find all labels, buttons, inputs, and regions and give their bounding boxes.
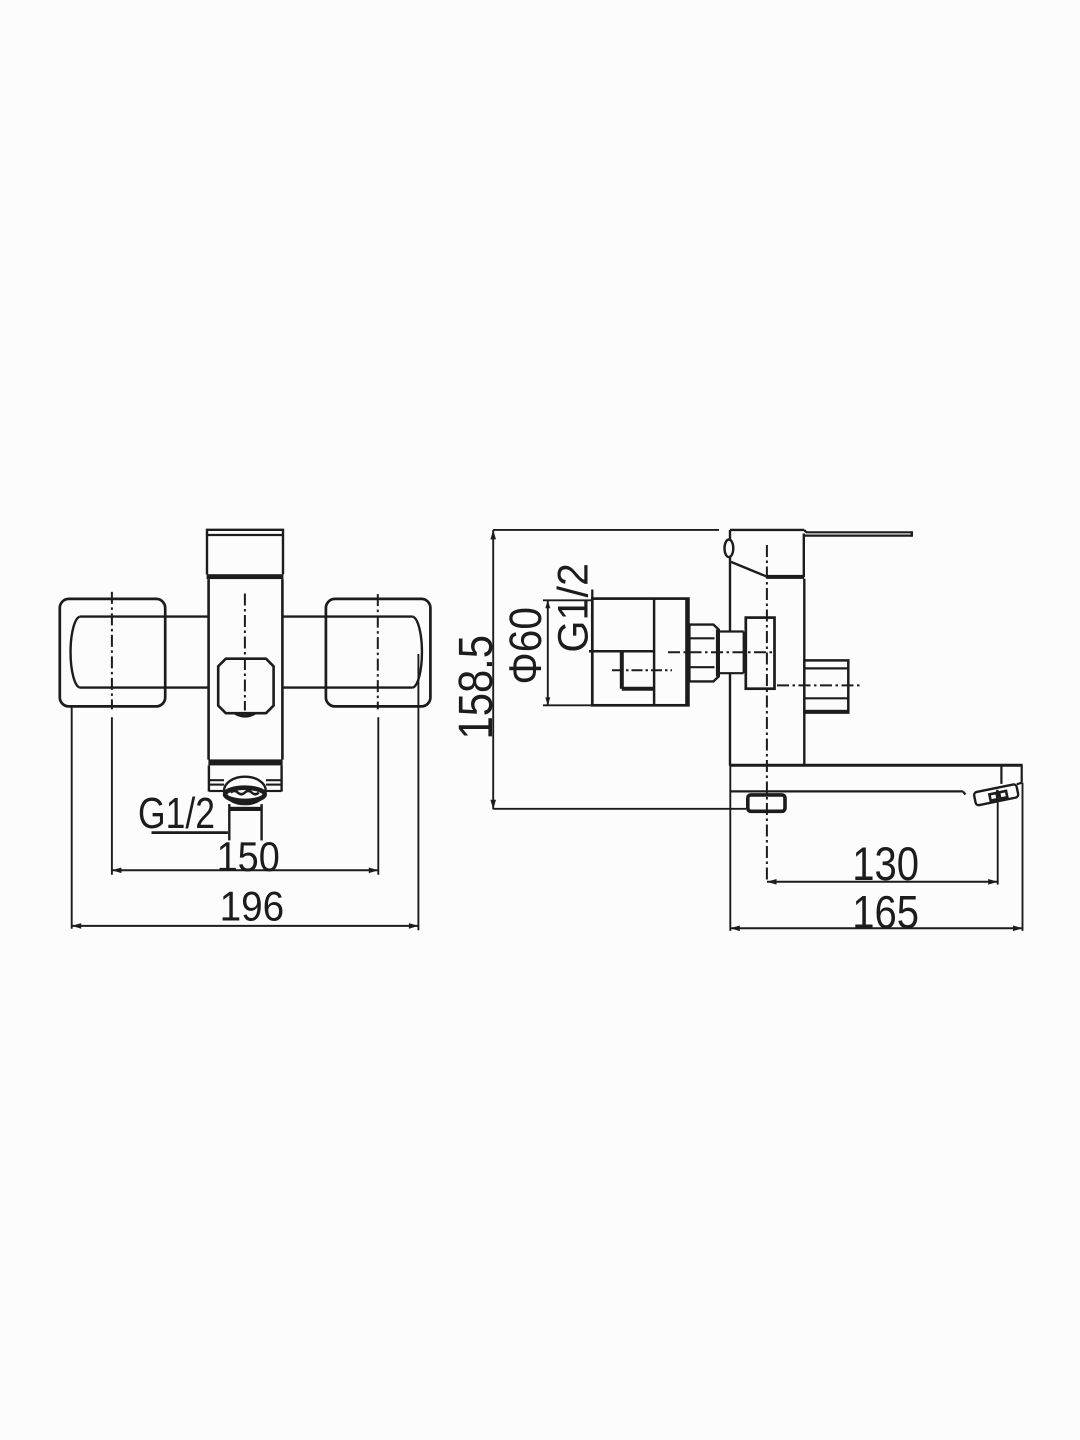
svg-text:150: 150 <box>217 833 280 880</box>
svg-text:196: 196 <box>220 883 285 930</box>
svg-text:G1/2: G1/2 <box>138 789 215 838</box>
svg-text:G1/2: G1/2 <box>550 563 597 653</box>
svg-text:Φ60: Φ60 <box>500 607 551 685</box>
svg-text:158.5: 158.5 <box>450 635 503 740</box>
svg-text:130: 130 <box>852 837 919 890</box>
svg-text:165: 165 <box>852 886 919 938</box>
